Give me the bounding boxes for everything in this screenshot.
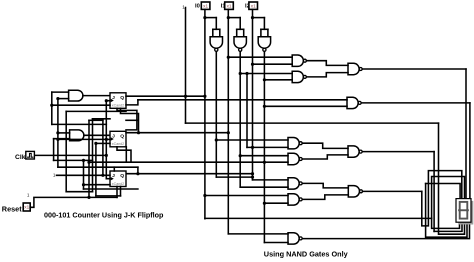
- svg-text:Using NAND Gates Only: Using NAND Gates Only: [264, 249, 349, 258]
- svg-text:I0: I0: [195, 4, 200, 10]
- svg-text:xCand2: xCand2: [112, 182, 124, 186]
- svg-text:x1: x1: [251, 3, 256, 8]
- svg-text:x1: x1: [227, 3, 232, 8]
- svg-text:1: 1: [27, 193, 30, 198]
- svg-text:Reset: Reset: [2, 204, 22, 213]
- svg-text:Q: Q: [120, 173, 124, 179]
- svg-text:1: 1: [53, 173, 56, 178]
- svg-text:xCand2: xCand2: [112, 142, 124, 146]
- svg-text:000-101 Counter Using J-K Flip: 000-101 Counter Using J-K Flipflop: [44, 210, 164, 219]
- svg-text:x1: x1: [203, 3, 208, 8]
- svg-text:Q: Q: [120, 95, 124, 101]
- svg-text:x1: x1: [24, 205, 29, 210]
- svg-text:Clk: Clk: [15, 154, 26, 161]
- svg-text:Q: Q: [120, 133, 124, 139]
- svg-text:xCand2: xCand2: [112, 104, 124, 108]
